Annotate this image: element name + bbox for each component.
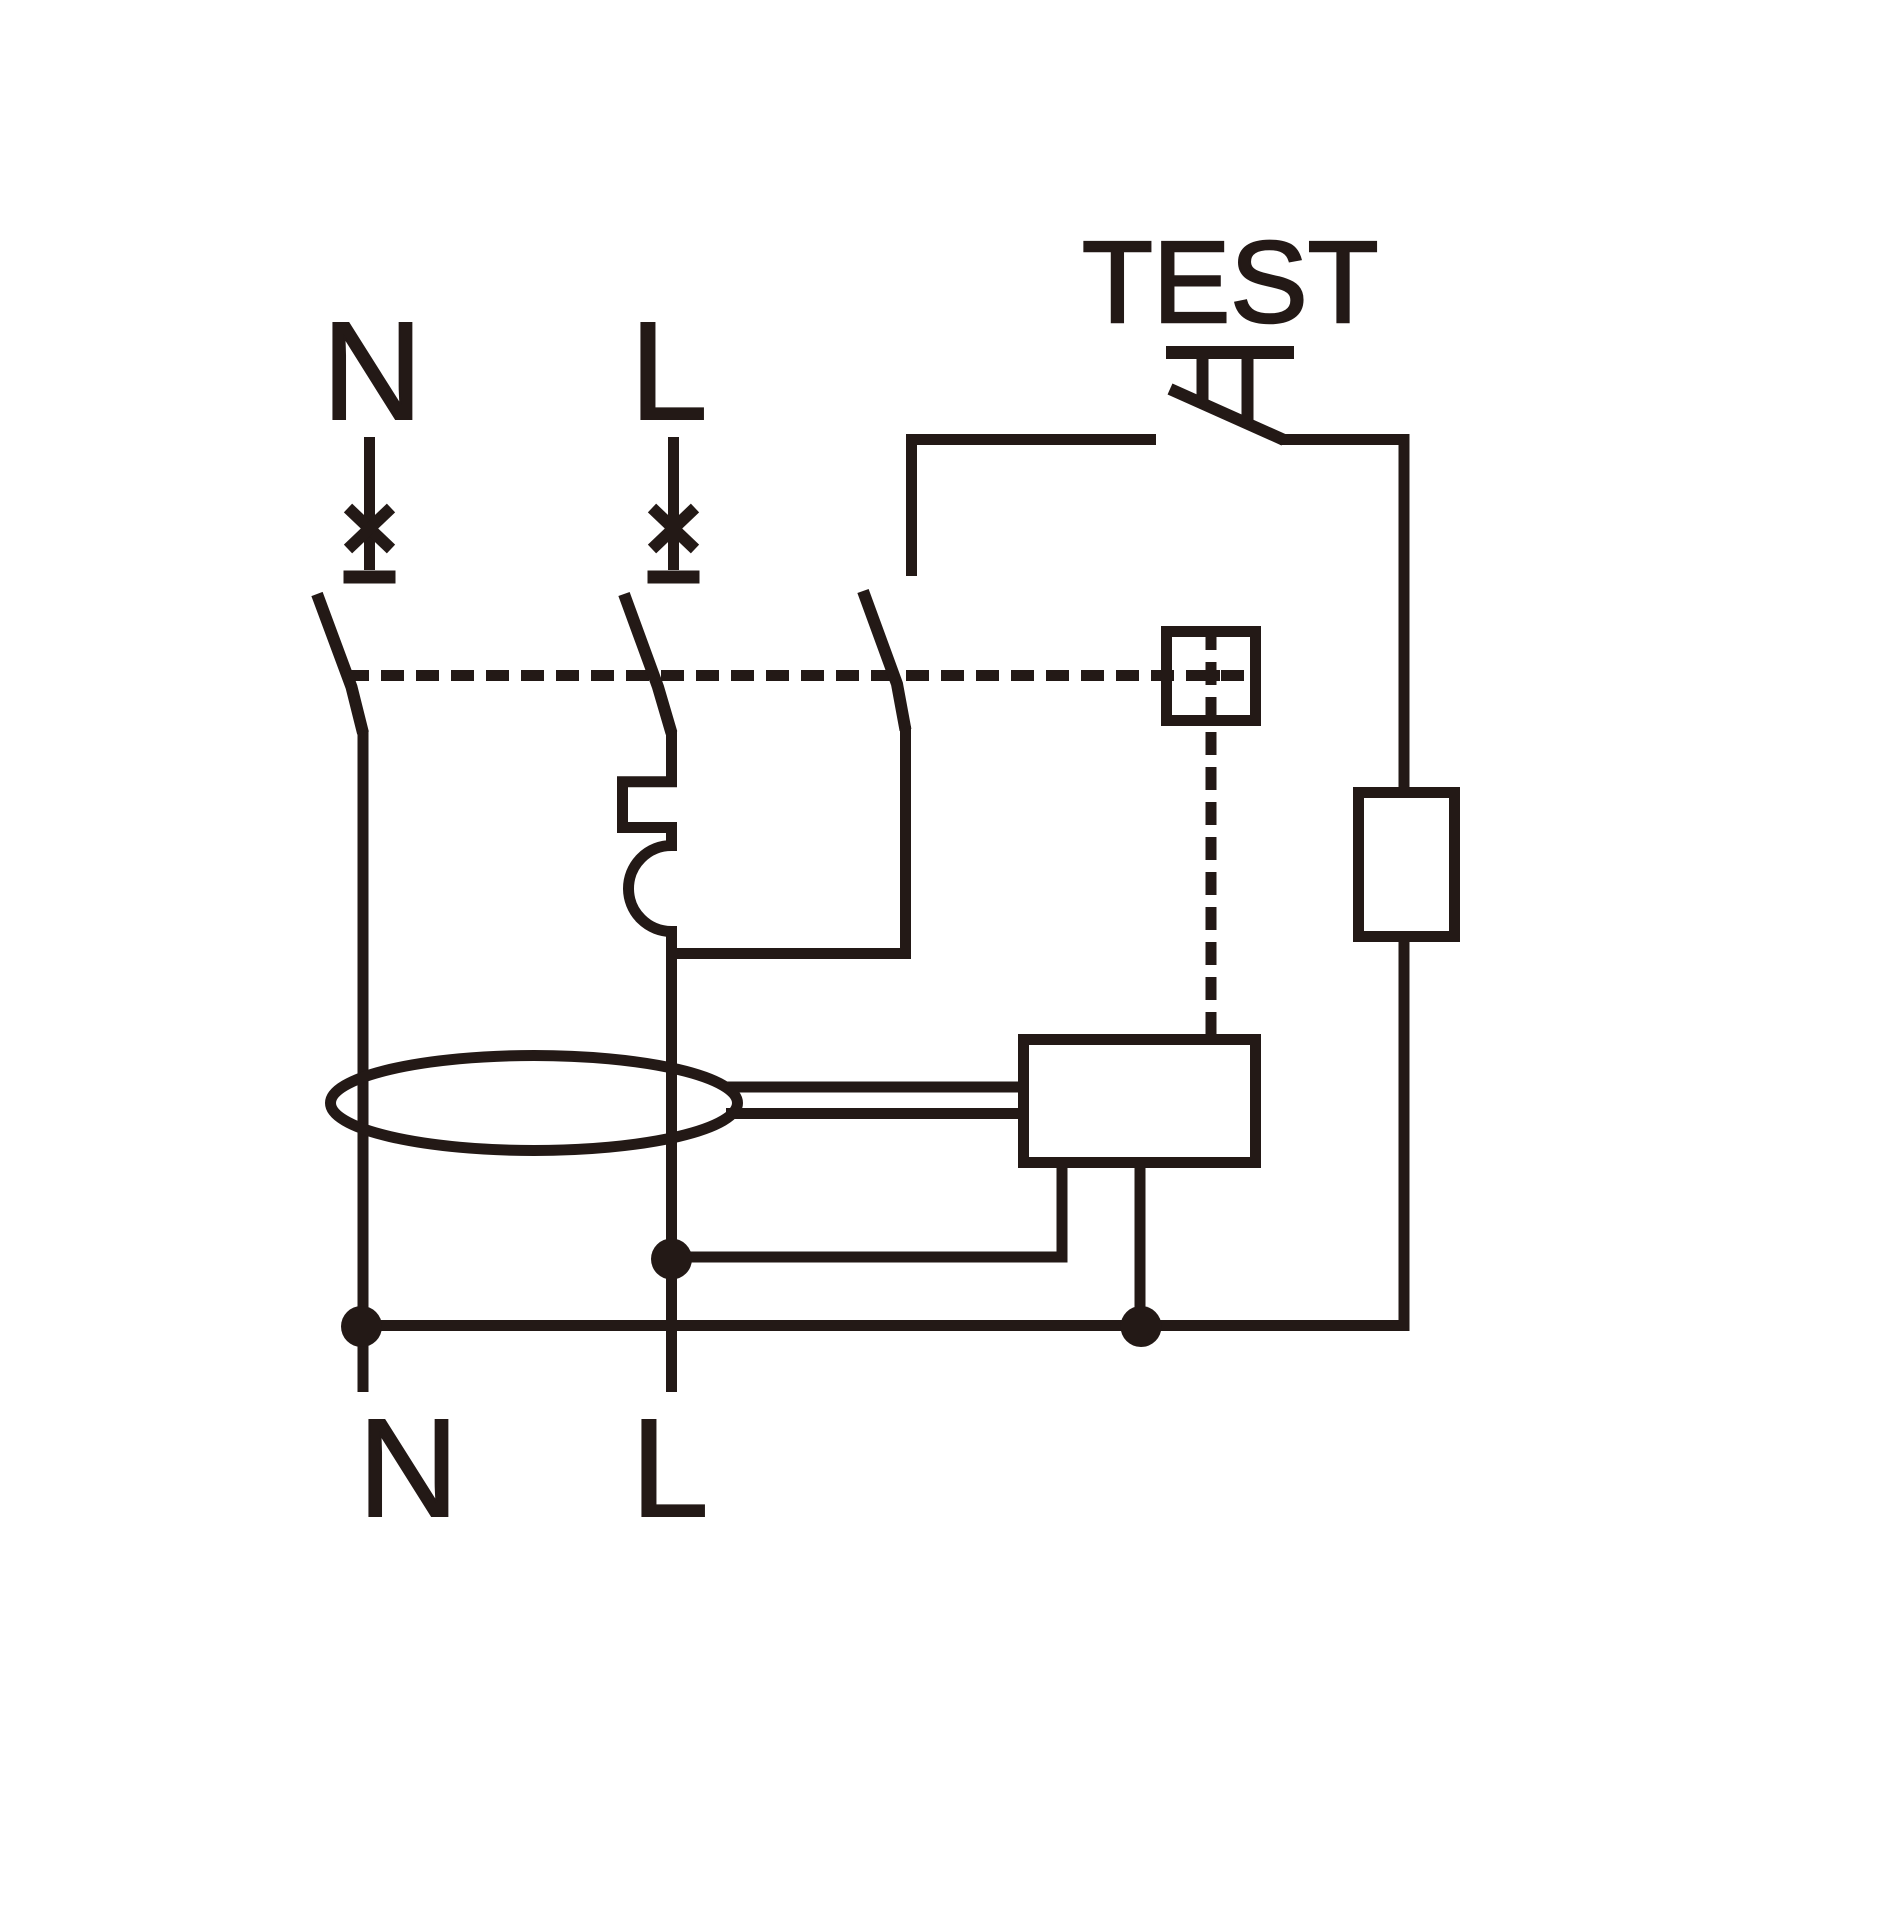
svg-text:N: N <box>322 293 423 449</box>
svg-text:L: L <box>631 1390 709 1546</box>
svg-text:N: N <box>358 1390 459 1546</box>
svg-text:TEST: TEST <box>1082 217 1378 347</box>
svg-text:L: L <box>630 293 708 449</box>
